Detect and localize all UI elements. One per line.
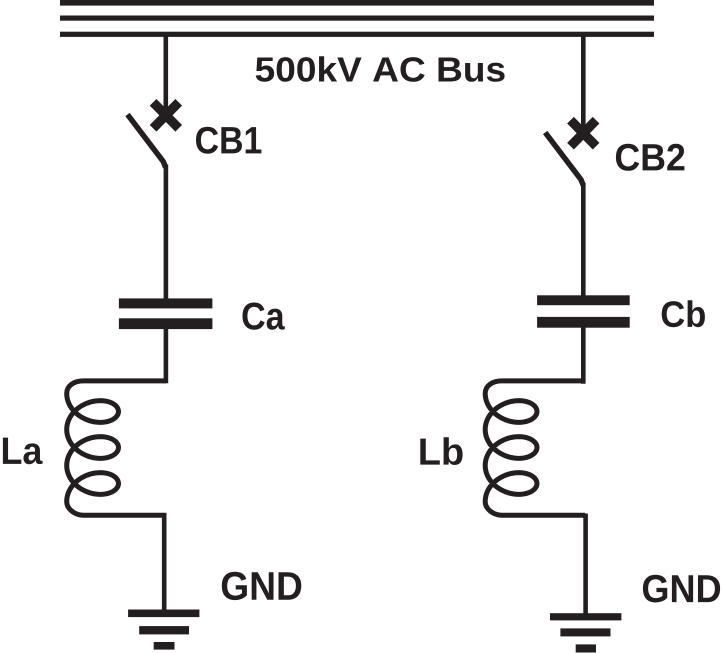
ground symbol right: bar 3: [576, 644, 596, 652]
label GND left: [222, 572, 302, 600]
label Ca: [242, 302, 284, 329]
circuit breaker CB1 switch blade: [128, 115, 166, 168]
inductor La coil: [67, 381, 167, 515]
label La: [3, 438, 43, 465]
wire: CB2 to Cb: [581, 183, 586, 299]
wire: Cb to Lb: [581, 326, 586, 384]
500kV AC bus bar line 2: [60, 16, 654, 21]
label GND right: [643, 575, 720, 603]
ground symbol left: bar 3: [154, 642, 175, 650]
wire: Lb to ground: [583, 514, 588, 615]
inductor Lb coil: [485, 381, 585, 515]
circuit breaker CB2 open-contact X mark: [571, 120, 597, 146]
wire: bus to CB1: [164, 33, 169, 114]
500kV AC bus bar line 3: [60, 32, 654, 37]
ground symbol left: bar 2: [139, 626, 189, 634]
ground symbol left: bar 1: [128, 610, 199, 618]
ground symbol right: bar 1: [550, 613, 621, 620]
wire: CB1 to Ca: [164, 165, 169, 303]
wire: La to ground: [162, 514, 167, 611]
label Lb: [420, 437, 462, 465]
500kV AC bus bar line 1: [60, 0, 654, 6]
label CB2: [616, 144, 685, 171]
capacitor Cb bottom plate: [537, 317, 630, 328]
label CB1: [196, 127, 261, 154]
ground symbol right: bar 2: [560, 628, 610, 636]
circuit breaker CB1 open-contact X mark: [153, 102, 179, 128]
capacitor Ca top plate: [119, 298, 212, 308]
wire: Ca to La: [164, 328, 169, 383]
label Cb: [662, 300, 705, 327]
capacitor Ca bottom plate: [119, 318, 212, 329]
wire: bus to CB2: [581, 33, 586, 132]
label: 500kV AC Bus: [256, 56, 505, 82]
circuit breaker CB2 switch blade: [545, 133, 583, 186]
capacitor Cb top plate: [537, 295, 630, 305]
